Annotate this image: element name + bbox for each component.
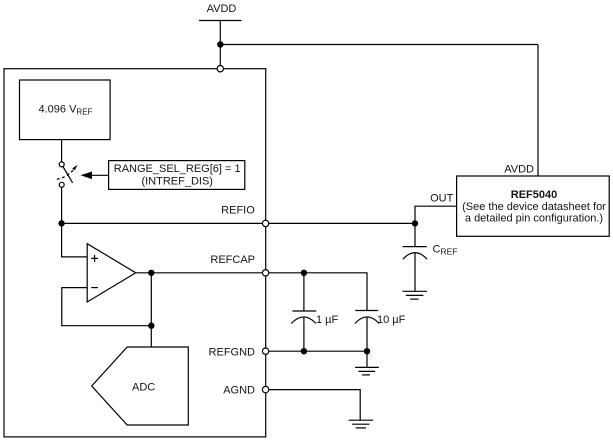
pin label OUT [430,192,454,204]
pin AVDD circle on device top [217,66,223,72]
node label REFIO [221,204,255,216]
capacitor CREF [403,244,458,292]
pin REFGND circle [262,348,268,354]
svg-text:a detailed pin configuration.): a detailed pin configuration.) [465,212,603,224]
node label AGND [223,385,255,397]
wire AVDD vertical drop [219,21,221,66]
ADC block [92,347,189,425]
svg-text:CREF: CREF [433,244,458,257]
block REF5040 [457,176,610,236]
arrow annotation to switch [81,172,109,180]
svg-text:OUT: OUT [430,192,454,204]
wire AVDD down to REF5040 box [537,45,539,177]
device outline box [4,69,266,437]
wire output down to ADC [150,273,152,347]
power AVDD top symbol [199,3,242,21]
pin REFCAP circle [262,270,268,276]
junction dot REFIO node [59,221,64,226]
svg-text:REFIO: REFIO [221,204,255,216]
wire node up to OUT [415,206,457,246]
junction dot feedback node [149,323,154,328]
wire feedback loop to inverting input [62,288,152,326]
block 4.096 VREF reference [20,80,111,140]
switch INTREF_DIS [57,162,78,187]
svg-text:REFCAP: REFCAP [210,254,255,266]
junction dot AVDD node [218,42,223,47]
junction dot opamp output [149,270,154,275]
junction dot C2 bottom [364,349,369,354]
op-amp U1 buffer [87,244,136,302]
pin REFIO circle [262,220,268,226]
node label REFCAP [210,254,255,266]
ground AGND [349,420,373,428]
wire C1 top lead [303,273,305,311]
wire AVDD to REF5040 horizontal [220,44,538,46]
junction dot C1 bottom [301,349,306,354]
junction dot CREF node [412,221,417,226]
wire opamp output REFCAP line [136,272,263,274]
ground REFGND [355,351,379,375]
capacitor C2 10uF [355,311,406,352]
pin label AVDD on REF5040 [504,164,534,176]
wire AGND external [269,390,360,421]
wire REFGND external [269,350,367,352]
node label REFGND [209,346,256,358]
svg-text:(INTREF_DIS): (INTREF_DIS) [141,176,213,188]
wire REFIO line inside device [62,222,263,224]
pin AGND circle [262,386,268,392]
ground CREF [403,291,428,299]
svg-text:ADC: ADC [132,382,155,394]
annotation box RANGE_SEL_REG [109,161,245,190]
svg-text:10 µF: 10 µF [377,314,406,326]
svg-text:REF5040: REF5040 [511,189,557,201]
wire REFIO external to CREF node [269,222,415,224]
wire VREF box to switch [61,140,63,162]
svg-text:AVDD: AVDD [504,164,534,176]
wire REFCAP external [269,273,367,311]
svg-text:(See the device datasheet for: (See the device datasheet for [462,201,606,213]
svg-text:REFGND: REFGND [209,346,256,358]
svg-text:AGND: AGND [223,385,255,397]
svg-text:AVDD: AVDD [207,3,237,15]
svg-text:1 µF: 1 µF [316,314,339,326]
junction dot C1 top [301,270,306,275]
wire switch down through REFIO node to opamp [62,187,88,257]
capacitor C1 1uF [291,311,338,351]
svg-text:RANGE_SEL_REG[6] = 1: RANGE_SEL_REG[6] = 1 [114,163,241,175]
